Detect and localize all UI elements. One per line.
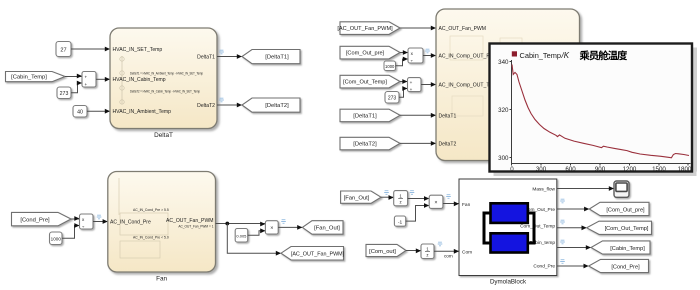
x axis [512, 163, 691, 165]
svg-text:z: z [399, 200, 401, 205]
constant -1 [394, 216, 405, 226]
wire 273 to sum1 [71, 81, 82, 93]
svg-text:Fan: Fan [156, 276, 167, 283]
wire 27 to DeltaT port1 [71, 47, 110, 52]
svg-text:[Fan_Out]: [Fan_Out] [314, 226, 340, 232]
svg-text:1500: 1500 [652, 166, 666, 173]
svg-text:27: 27 [60, 47, 66, 53]
svg-text:AC_IN_Comp_OUT_Pre: AC_IN_Comp_OUT_Pre [439, 54, 495, 60]
constant 40 [73, 106, 87, 118]
wire divide1 to port2 [423, 53, 436, 58]
svg-text:320: 320 [498, 107, 509, 114]
scope display block [614, 181, 629, 197]
legend square [512, 51, 517, 56]
svg-text:1200: 1200 [623, 166, 637, 173]
wire Cond_Pre to divide2 p1 [71, 216, 80, 221]
logging badge divide1 [425, 49, 430, 53]
From tag [Com_out] [366, 244, 406, 256]
svg-text:Fan: Fan [462, 202, 471, 208]
chart shadow right [693, 48, 697, 172]
svg-text:Cond_Pre: Cond_Pre [533, 264, 555, 270]
wire Com_Out_Temp to goto [557, 225, 587, 230]
svg-text:×: × [270, 226, 273, 232]
y ticks [510, 62, 512, 158]
logging badge delay2 [438, 242, 443, 246]
svg-text:+: + [84, 82, 87, 87]
subsystem Fan [108, 172, 216, 273]
From tag [Com_Out_pre] [340, 46, 400, 59]
wire Com_Out_Pre to goto [557, 207, 590, 212]
subsystem AC control (middle) [436, 9, 580, 161]
svg-text:Com: Com [462, 249, 472, 255]
wire Fan out to mult1 with junction [216, 222, 266, 227]
badge cabin_temp [560, 240, 565, 244]
svg-text:40: 40 [77, 109, 83, 115]
svg-text:[DeltaT2]: [DeltaT2] [353, 142, 377, 148]
multiply block Product2 [429, 195, 443, 208]
wire divide2 to Fan [93, 219, 108, 224]
logging badge fanout tag [384, 191, 389, 195]
wire delay1 to mult2 p1 [408, 196, 430, 201]
svg-text:[Fan_Out]: [Fan_Out] [344, 196, 370, 202]
svg-text:[Com_Out_pre]: [Com_Out_pre] [346, 51, 385, 57]
svg-text:+: + [410, 80, 413, 85]
unit delay 1/z (Fan) [394, 191, 408, 206]
logging badge divide2 [97, 215, 102, 219]
svg-text:[DeltaT1]: [DeltaT1] [265, 55, 289, 61]
DeltaT faint interior chain icon [120, 56, 124, 104]
wire to port4 [400, 113, 436, 118]
svg-text:[Com_out]: [Com_out] [369, 249, 396, 255]
badge cond_pre [560, 260, 565, 264]
sum block Add1 [82, 72, 96, 88]
badge com_out_pre [560, 199, 565, 203]
svg-text:+: + [84, 75, 87, 80]
svg-text:AC_IN_Cond_Pre > 5.5: AC_IN_Cond_Pre > 5.5 [133, 208, 169, 212]
svg-text:[Cabin_Temp]: [Cabin_Temp] [610, 246, 645, 252]
svg-text:[AC_OUT_Fan_PWM]: [AC_OUT_Fan_PWM] [337, 26, 393, 32]
svg-text:AC_IN_Cond_Pre: AC_IN_Cond_Pre [110, 219, 151, 225]
svg-text:Com_Out_Temp: Com_Out_Temp [520, 223, 555, 229]
goto [Fan_Out] [302, 221, 343, 235]
wire to port5 [400, 141, 436, 146]
svg-text:273: 273 [388, 95, 397, 101]
wire to delay1 [381, 195, 394, 200]
svg-text:Cabin_Temp: Cabin_Temp [520, 51, 562, 60]
y axis [511, 60, 513, 164]
chart panel [490, 44, 693, 172]
goto [Cond_Pre] [589, 259, 649, 272]
constant 1000b [50, 232, 63, 245]
svg-text:0.005: 0.005 [236, 233, 247, 238]
temperature curve [512, 65, 689, 158]
wire Mass_flow to scope [557, 186, 614, 191]
logging badge delay1 [410, 191, 415, 195]
wire mult1 to [Fan_Out] goto [278, 225, 302, 230]
wire to sum2 p1 [400, 79, 408, 84]
From tag [DeltaT1]b [340, 109, 400, 122]
From tag [DeltaT2]b [340, 137, 400, 150]
svg-text:1800: 1800 [678, 166, 692, 173]
mid block faint interior [450, 36, 540, 154]
wire 40 to DeltaT port3 [87, 109, 110, 114]
svg-text:[AC_OUT_Fan_PWM]: [AC_OUT_Fan_PWM] [291, 252, 345, 258]
svg-text:HVAC_IN_Cabin_Temp: HVAC_IN_Cabin_Temp [113, 77, 166, 83]
svg-text:0: 0 [510, 166, 514, 173]
svg-text:[Cond_Pre]: [Cond_Pre] [611, 264, 640, 270]
svg-text:/K: /K [561, 51, 570, 60]
svg-text:[Com_Out_Temp]: [Com_Out_Temp] [343, 80, 387, 86]
From tag [AC_OUT_Fan_PWM] [337, 22, 400, 35]
constant 273b [385, 92, 399, 104]
svg-text:AC_OUT_Fan_PWM: AC_OUT_Fan_PWM [439, 26, 487, 32]
wire sum2 to port3 [421, 82, 436, 87]
svg-text:300: 300 [498, 155, 509, 162]
wire Cond_Pre to goto [557, 264, 589, 269]
svg-text:HVAC_IN_SET_Temp: HVAC_IN_SET_Temp [113, 47, 163, 53]
svg-text:300: 300 [536, 166, 547, 173]
svg-text:DymolaBlock: DymolaBlock [490, 279, 527, 286]
svg-text:[DeltaT1]: [DeltaT1] [353, 114, 377, 120]
svg-text:DeltaT2 = HVAC_IN_Cabin_Temp -: DeltaT2 = HVAC_IN_Cabin_Temp - HVAC_IN_S… [130, 90, 200, 94]
svg-text:1000: 1000 [51, 237, 62, 242]
svg-text:AC_IN_Cond_Pre < 5.0: AC_IN_Cond_Pre < 5.0 [133, 236, 169, 240]
svg-text:DeltaT1: DeltaT1 [197, 54, 215, 60]
Dymola heat-exchanger icon [484, 203, 534, 252]
wire Cabin_Temp to sum1 [65, 74, 82, 79]
wire 0.005 to mult1 p2 [248, 228, 266, 235]
subsystem DeltaT [110, 28, 217, 129]
badge com_out_temp [560, 220, 565, 224]
multiply block Product1 [265, 221, 278, 234]
logging badge DeltaT1 [219, 50, 224, 54]
wire -1 to mult2 p2 [406, 203, 430, 221]
wire 1000b to divide2 p2 [62, 223, 80, 238]
svg-text:+: + [410, 87, 413, 92]
svg-text:AC_OUT_Fan_PWM = 1: AC_OUT_Fan_PWM = 1 [178, 225, 213, 229]
wire 1000 to divide1 p2 [396, 57, 409, 66]
goto [DeltaT2] [242, 98, 300, 112]
From tag [Fan_Out]b [341, 191, 381, 203]
goto [Com_Out_pre] [589, 202, 649, 215]
wire mult2 to Dymola Fan port [443, 201, 459, 206]
svg-text:600: 600 [565, 166, 576, 173]
svg-text:HVAC_IN_Ambient_Temp: HVAC_IN_Ambient_Temp [113, 109, 172, 115]
divide block Divide2 [80, 214, 94, 229]
wire 273b to sum2 p2 [399, 86, 408, 97]
x tick labels [510, 166, 692, 173]
constant 0.005 [235, 229, 248, 243]
svg-text:[DeltaT2]: [DeltaT2] [265, 103, 289, 109]
svg-text:-1: -1 [398, 219, 403, 225]
goto [DeltaT1] [242, 50, 300, 64]
wire to divide1 p1 [400, 50, 408, 55]
svg-text:340: 340 [498, 59, 509, 66]
svg-text:DeltaT1 = HVAC_IN_Ambient_Temp: DeltaT1 = HVAC_IN_Ambient_Temp - HVAC_IN… [130, 72, 203, 76]
goto [Com_Out_Temp] [587, 221, 652, 234]
svg-text:[Com_Out_pre]: [Com_Out_pre] [606, 207, 645, 213]
Fan faint interior [119, 178, 168, 258]
svg-text:DeltaT1: DeltaT1 [439, 113, 457, 119]
svg-text:×: × [434, 200, 437, 206]
wire DeltaT1 to goto [217, 54, 242, 59]
wire DeltaT2 to goto [217, 103, 242, 108]
branch wire down to AC_OUT_Fan_PWM goto [227, 224, 281, 256]
goto [Cabin_Temp] [591, 241, 650, 254]
logging badge DeltaT2 [219, 98, 224, 102]
svg-text:AC_OUT_Fan_PWM: AC_OUT_Fan_PWM [166, 218, 214, 224]
svg-text:[Cabin_Temp]: [Cabin_Temp] [11, 75, 47, 81]
constant 1000 [384, 61, 396, 71]
svg-text:1000: 1000 [385, 64, 395, 69]
svg-text:273: 273 [60, 91, 69, 97]
From tag [Cond_Pre] [12, 212, 72, 225]
junction [225, 222, 229, 226]
chart title chinese [580, 50, 628, 60]
From tag [Cabin_Temp] [6, 72, 66, 82]
svg-text:com: com [444, 254, 453, 259]
wire to delay2 [406, 248, 421, 253]
divide block Divide1 [408, 48, 423, 63]
From tag [Com_Out_Temp] [340, 75, 400, 88]
constant 273 [57, 87, 71, 99]
logging badge mult2 [446, 195, 451, 199]
logging badge mult1 [281, 220, 286, 224]
wire sum1 to DeltaT port2 [96, 77, 110, 82]
DymolaBlock [459, 179, 557, 276]
svg-text:900: 900 [595, 166, 606, 173]
svg-text:[Cond_Pre]: [Cond_Pre] [20, 217, 50, 223]
sum block Add2 [408, 78, 422, 92]
x ticks [512, 164, 689, 166]
constant 27 [56, 42, 71, 57]
svg-text:DeltaT: DeltaT [154, 132, 173, 139]
unit delay 1/z (Com) [421, 244, 434, 259]
svg-text:Mass_flow: Mass_flow [532, 187, 555, 193]
wire to port1 [400, 26, 436, 31]
svg-text:[Com_Out_Temp]: [Com_Out_Temp] [605, 226, 649, 232]
wire Cabin_temp to goto [557, 245, 591, 250]
chart shadow bottom [494, 172, 697, 177]
svg-text:z: z [426, 253, 428, 258]
svg-text:DeltaT2: DeltaT2 [439, 141, 457, 147]
wire delay2 to Dymola Com port [434, 249, 459, 254]
svg-text:DeltaT2: DeltaT2 [197, 103, 215, 109]
goto [AC_OUT_Fan_PWM] [281, 247, 345, 261]
